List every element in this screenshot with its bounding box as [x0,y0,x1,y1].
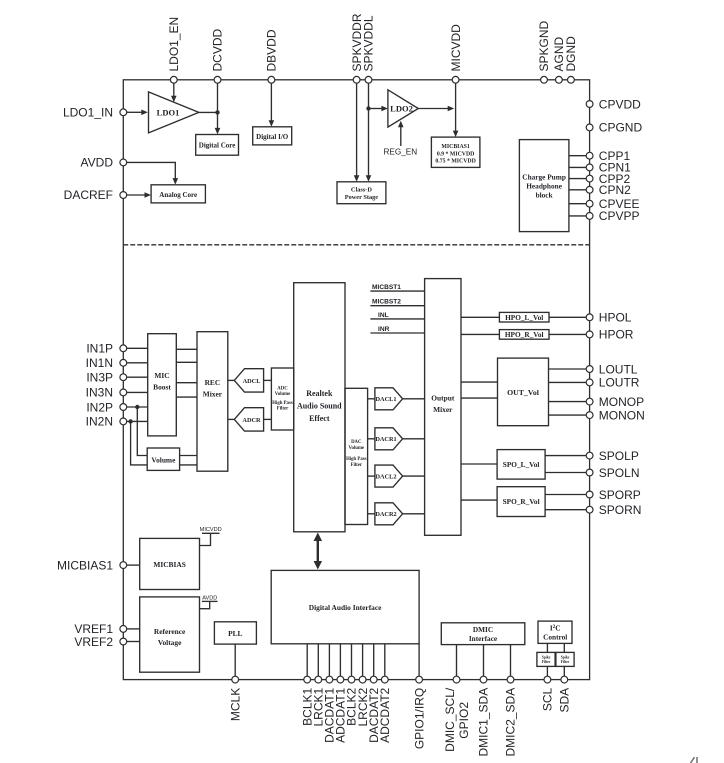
wire Output Mixer to HPO_R_Vol [461,333,499,335]
wire Digital Audio Interface to LRCK2 [362,644,364,676]
pin BCLK2 [348,676,355,683]
svg-text:Mixer: Mixer [433,405,453,414]
wire IN2N to MIC Boost [127,420,148,422]
wire SPKVDDL tap to LDO2 [369,108,382,110]
wire Charge Pump to CPP2 [569,178,586,180]
svg-text:Digital I/O: Digital I/O [256,133,289,141]
svg-text:DMIC_SCL/: DMIC_SCL/ [443,687,457,752]
svg-text:Digital Audio Interface: Digital Audio Interface [309,603,382,612]
wire DMIC Interface to DMIC2_SDA [510,645,512,677]
svg-text:Charge Pump: Charge Pump [522,172,566,181]
wire IN1P to MIC Boost [127,347,148,349]
dac DACR1 [375,428,403,450]
wire MIC Boost to REC Mixer 1 [176,348,197,350]
pin HPOR [586,331,593,338]
pin MICVDD [452,76,459,83]
svg-text:DMIC1_SDA: DMIC1_SDA [477,688,491,757]
svg-text:Mixer: Mixer [203,390,223,399]
pin DACDAT2 [370,676,377,683]
wire LDO2 output to MICVDD rail [418,108,448,110]
svg-text:LDO2: LDO2 [390,104,413,114]
block MICBIAS [140,538,200,589]
block Class-D Power Stage [337,182,386,204]
wire SPO_R_Vol to SPORN [545,509,586,511]
svg-text:DACL2: DACL2 [376,474,397,481]
block DAC Volume / High Pass Filter [345,388,368,524]
wire SCL spike filter to SCL [546,666,548,676]
svg-text:REG_EN: REG_EN [383,147,417,156]
svg-text:HPO_R_Vol: HPO_R_Vol [505,330,544,339]
pin DCVDD [214,76,221,83]
adc ADCL [234,369,263,392]
wire Charge Pump to CPVEE [569,203,586,205]
svg-text:SPKVDDL: SPKVDDL [362,15,376,71]
pin SPOLN [586,469,593,476]
junction IN2N tap [128,419,132,423]
pin IN1N [120,359,127,366]
wire DACL2 to Output Mixer [403,475,425,477]
pin DMIC2_SDA [507,676,514,683]
svg-text:LDO1_IN: LDO1_IN [63,106,113,120]
block Digital Core [196,135,239,156]
wire DAC Volume to DACL1 [368,398,375,400]
wire DMIC Interface to DMIC_SCL/ [456,645,458,677]
block Analog Core [151,185,205,203]
svg-text:Spike: Spike [542,656,551,660]
chip boundary [123,80,589,680]
svg-text:Headphone: Headphone [526,181,562,190]
svg-text:High Pass: High Pass [272,401,293,406]
svg-text:IN2P: IN2P [86,400,113,414]
block Realtek Audio Sound Effect [294,283,345,532]
wire Digital Audio Interface to BCLK2 [351,644,353,676]
svg-text:SPOLP: SPOLP [599,449,639,463]
wire OUT_Vol to LOUTR [549,381,587,383]
wire SPKVDDR to Class-D [356,83,358,176]
pin LOUTR [586,379,593,386]
svg-text:ADCDAT2: ADCDAT2 [378,687,392,742]
svg-text:INR: INR [378,326,390,333]
wire PLL to MCLK [234,644,236,676]
block HPO_L_Vol [499,312,549,322]
block OUT_Vol [498,358,549,426]
svg-text:LOUTL: LOUTL [599,362,638,376]
svg-text:Audio Sound: Audio Sound [297,402,342,411]
wire DBVDD to Digital I/O [270,83,272,121]
svg-text:Spike: Spike [561,656,570,660]
wire Digital Audio Interface to ADCDAT1 [339,644,341,676]
svg-text:IN3N: IN3N [86,386,113,400]
svg-text:LDO1_EN: LDO1_EN [167,17,181,72]
svg-text:0.75 * MICVDD: 0.75 * MICVDD [435,159,475,165]
svg-text:CPGND: CPGND [599,121,643,135]
wire LDO1_EN to LDO1 [173,83,175,97]
svg-text:VREF2: VREF2 [74,635,113,649]
dac DACL1 [375,388,403,410]
block REC Mixer [197,332,228,472]
svg-text:Boost: Boost [153,383,171,392]
svg-text:CPN2: CPN2 [599,183,631,197]
svg-text:High Pass: High Pass [346,457,367,462]
pin CPGND [586,124,593,131]
svg-text:MICBIAS1: MICBIAS1 [441,144,469,150]
pin SPORP [586,491,593,498]
block SDA spike filter [556,652,574,666]
pin MICBIAS1 [120,562,127,569]
svg-text:Filter: Filter [351,463,363,468]
svg-text:DACREF: DACREF [64,188,113,202]
svg-text:GPIO1/IRQ: GPIO1/IRQ [412,688,426,749]
svg-text:MICVDD: MICVDD [449,24,463,72]
svg-text:Interface: Interface [469,634,498,643]
wire VREF2 to Reference Voltage [127,641,140,643]
svg-text:Filter: Filter [542,660,551,664]
wire ADCR to ADC Volume [264,418,272,420]
wire DMIC Interface to DMIC1_SDA [483,645,485,677]
wire HPO_L_Vol to HPOL [549,316,586,318]
pin MCLK [232,676,239,683]
svg-text:MICBIAS: MICBIAS [153,560,185,569]
svg-text:Volume: Volume [275,392,291,397]
analog/digital divider (dashed) [123,244,589,246]
svg-text:DCVDD: DCVDD [211,28,225,71]
svg-text:IN1N: IN1N [86,356,113,370]
block PLL [214,622,256,644]
svg-text:Volume: Volume [151,456,176,465]
wire HPO_R_Vol to HPOR [549,333,586,335]
svg-text:SPORP: SPORP [599,488,641,502]
pin GPIO1/IRQ [416,676,423,683]
wire Charge Pump to CPN1 [569,166,586,168]
wire Volume to REC Mixer 2 [180,464,197,466]
pin DACDAT1 [326,676,333,683]
pin IN2P [120,404,127,411]
svg-text:I2​C: I2​C [550,624,561,633]
svg-text:MCLK: MCLK [228,688,242,721]
wire IN2N tap to Volume [131,421,148,465]
block ADC Volume / High Pass Filter [271,368,293,430]
svg-text:ADCL: ADCL [243,378,261,385]
wire Digital Audio Interface to LRCK1 [317,644,319,676]
wire SPO_R_Vol to SPORP [545,494,586,496]
svg-text:DMIC: DMIC [473,625,493,634]
wire Output Mixer to OUT_Vol 2 [461,397,498,399]
pin HPOL [586,314,593,321]
svg-text:MICBST2: MICBST2 [372,299,401,306]
dac DACL2 [375,465,403,487]
wire AVDD to Analog Core [127,162,176,178]
svg-text:Analog Core: Analog Core [159,191,197,199]
svg-text:DACL1: DACL1 [376,396,397,403]
pin VREF1 [120,626,127,633]
wire Realtek to Digital Audio Interface (bidirectional) [317,539,319,564]
svg-text:DACR1: DACR1 [375,436,396,443]
svg-text:Reference: Reference [154,627,186,636]
wire MIC Boost to REC Mixer 2 [176,361,197,363]
svg-text:Output: Output [431,394,455,403]
wire Digital Audio Interface to BCLK1 [306,644,308,676]
svg-text:CPVPP: CPVPP [599,209,640,223]
block SPO_L_Vol [497,450,545,480]
svg-text:Voltage: Voltage [158,638,182,647]
pin CPN1 [586,164,593,171]
wire DACR2 to Output Mixer [403,513,425,515]
wire LDO1 output to DCVDD rail [199,111,218,113]
svg-text:DGND: DGND [564,36,578,72]
pin DBVDD [268,76,275,83]
wire SDA spike filter to SDA [563,666,565,676]
pin IN3P [120,374,127,381]
svg-text:MONON: MONON [599,408,645,422]
junction SPKVDDL/LDO2 [366,106,370,110]
wire REG_EN to LDO2 [400,127,402,147]
pin VREF2 [120,638,127,645]
pin SPKGND [541,76,548,83]
wire OUT_Vol to MONON [549,414,587,416]
svg-text:IN2N: IN2N [86,415,113,429]
pin SDA [561,676,568,683]
power tap MICVDD [200,533,211,545]
block Output Mixer [425,279,461,536]
pin LRCK2 [359,676,366,683]
pin IN2N [120,418,127,425]
wire Digital Audio Interface to DACDAT2 [373,644,375,676]
wire IN3P to MIC Boost [127,376,148,378]
svg-text:Effect: Effect [309,414,330,423]
svg-text:Volume: Volume [349,446,365,451]
wire Volume to REC Mixer 1 [180,455,197,457]
wire DAC Volume to DACR1 [368,438,375,440]
wire MICVDD to MICBIAS1 block [455,83,457,131]
pin CPP2 [586,175,593,182]
svg-text:block: block [536,190,554,199]
pin LDO1_IN [120,109,127,116]
pin BCLK1 [304,676,311,683]
svg-text:LDO1: LDO1 [157,107,180,117]
block I2C Control [538,621,572,643]
pin SCL [544,676,551,683]
wire ADCL to ADC Volume [264,379,272,381]
wire IN2P tap to Volume [137,407,147,456]
wire SPO_L_Vol to SPOLP [545,455,586,457]
svg-text:MONOP: MONOP [599,395,644,409]
pin SPOLP [586,452,593,459]
pin MONON [586,412,593,419]
pin CPVDD [586,101,593,108]
pin DMIC1_SDA [480,676,487,683]
svg-text:OUT_Vol: OUT_Vol [507,388,540,397]
svg-text:DAC: DAC [351,440,362,445]
block Reference Voltage [140,597,200,672]
pin AVDD [120,159,127,166]
block MICBIAS1 regulator [431,137,480,167]
block Charge Pump Headphone [519,140,569,232]
svg-text:Class-D: Class-D [351,187,372,194]
pin DGND [568,76,575,83]
wire VREF1 to Reference Voltage [127,628,140,630]
svg-text:DMIC2_SDA: DMIC2_SDA [504,688,518,757]
block Volume [147,448,179,470]
block SCL spike filter [537,652,555,666]
junction DCVDD/LDO1 [215,110,219,114]
pin ADCDAT1 [337,676,344,683]
block Digital I/O [253,127,292,145]
svg-text:ADC: ADC [277,387,288,392]
svg-text:IN3P: IN3P [86,371,113,385]
wire DACL1 to Output Mixer [403,398,425,400]
pin SPKVDDR [353,76,360,83]
pin CPVPP [586,213,593,220]
svg-text:Filter: Filter [561,660,570,664]
block Digital Audio Interface [271,570,419,643]
svg-text:Power Stage: Power Stage [345,194,378,201]
wire Output Mixer to HPO_L_Vol [461,316,499,318]
pin CPN2 [586,186,593,193]
wire IN1N to MIC Boost [127,362,148,364]
svg-text:MIC: MIC [154,371,169,380]
pin SPKVDDL [365,76,372,83]
svg-text:HPO_L_Vol: HPO_L_Vol [505,313,543,322]
pin ADCDAT2 [381,676,388,683]
pin AGND [556,76,563,83]
svg-text:SPO_R_Vol: SPO_R_Vol [503,497,540,506]
wire DAC Volume to DACL2 [368,475,375,477]
svg-text:REC: REC [205,378,221,387]
wire I2C Control to SCL spike filter [546,643,548,652]
adc ADCR [234,408,263,431]
pin DACREF [120,192,127,199]
wire DCVDD to Digital Core [217,83,219,128]
wire Output Mixer to SPO_L_Vol [461,463,497,465]
power tap AVDD [200,601,210,608]
svg-text:MICVDD: MICVDD [200,527,222,533]
svg-text:Digital Core: Digital Core [199,142,236,150]
block HPO_R_Vol [499,330,549,340]
page artifact bottom-right [691,757,698,763]
pin SPORN [586,506,593,513]
block MIC Boost [148,334,177,436]
svg-text:SPO_L_Vol: SPO_L_Vol [503,460,540,469]
svg-text:HPOL: HPOL [599,311,632,325]
wire Digital Audio Interface to DACDAT1 [328,644,330,676]
wire I2C Control to SDA spike filter [563,643,565,652]
svg-text:IN1P: IN1P [86,342,113,356]
wire Charge Pump to CPVPP [569,215,586,217]
wire REC Mixer to ADCR [228,418,235,420]
dac DACR2 [375,503,403,525]
pin LRCK1 [315,676,322,683]
wire REC Mixer to ADCL [228,379,235,381]
svg-text:GPIO2: GPIO2 [457,702,471,739]
wire SPO_L_Vol to SPOLN [545,472,586,474]
svg-text:Control: Control [543,633,567,642]
wire Output Mixer to OUT_Vol 1 [461,381,498,383]
wire IN2P to MIC Boost [127,406,148,408]
block SPO_R_Vol [497,487,545,517]
wire MIC Boost to REC Mixer 3 [176,382,197,384]
pin CPVEE [586,200,593,207]
op-amp LDO1 [149,92,199,133]
wire Charge Pump to CPN2 [569,189,586,191]
svg-text:Realtek: Realtek [306,389,333,398]
svg-text:AVDD: AVDD [81,156,114,170]
block DMIC Interface [441,623,525,645]
svg-text:CPVDD: CPVDD [599,97,641,111]
svg-text:DBVDD: DBVDD [265,29,279,71]
wire LDO1_IN to LDO1 [127,111,142,113]
wire Digital Audio Interface to ADCDAT2 [384,644,386,676]
pin IN3N [120,389,127,396]
svg-text:AVDD: AVDD [202,595,217,601]
svg-text:SPKGND: SPKGND [537,20,551,71]
junction IN2P tap [135,405,139,409]
pin MONOP [586,398,593,405]
op-amp LDO2 [388,90,418,127]
wire MIC Boost to REC Mixer 4 [176,396,197,398]
svg-text:MICBST1: MICBST1 [372,284,401,291]
wire OUT_Vol to LOUTL [549,368,587,370]
wire SPKVDDL to Class-D [368,83,370,176]
svg-text:Filter: Filter [277,407,289,412]
svg-text:SCL: SCL [541,687,555,711]
pin CPP1 [586,152,593,159]
wire DAC Volume to DACR2 [368,513,375,515]
svg-text:MICBIAS1: MICBIAS1 [57,558,113,572]
pin LOUTL [586,366,593,373]
svg-text:INL: INL [378,312,389,319]
wire Output Mixer to SPO_R_Vol [461,499,497,501]
svg-text:SPOLN: SPOLN [599,466,640,480]
pin IN1P [120,345,127,352]
pin LDO1_EN [170,76,177,83]
pin DMIC_SCL/ [453,676,460,683]
wire OUT_Vol to MONOP [549,401,587,403]
svg-text:PLL: PLL [228,629,242,638]
wire MICBIAS1 to MICBIAS [127,564,140,566]
wire DACR1 to Output Mixer [403,438,425,440]
wire Digital Audio Interface to GPIO1/IRQ [418,644,420,676]
svg-text:SDA: SDA [558,688,572,713]
svg-text:DACR2: DACR2 [375,511,396,518]
wire DACREF to Analog Core [127,194,145,196]
svg-text:ADCR: ADCR [242,417,261,424]
svg-text:0.9 * MICVDD: 0.9 * MICVDD [437,151,475,157]
wire IN3N to MIC Boost [127,391,148,393]
wire Charge Pump to CPP1 [569,155,586,157]
svg-text:SPORN: SPORN [599,503,642,517]
svg-text:HPOR: HPOR [599,328,634,342]
svg-text:LOUTR: LOUTR [599,376,640,390]
